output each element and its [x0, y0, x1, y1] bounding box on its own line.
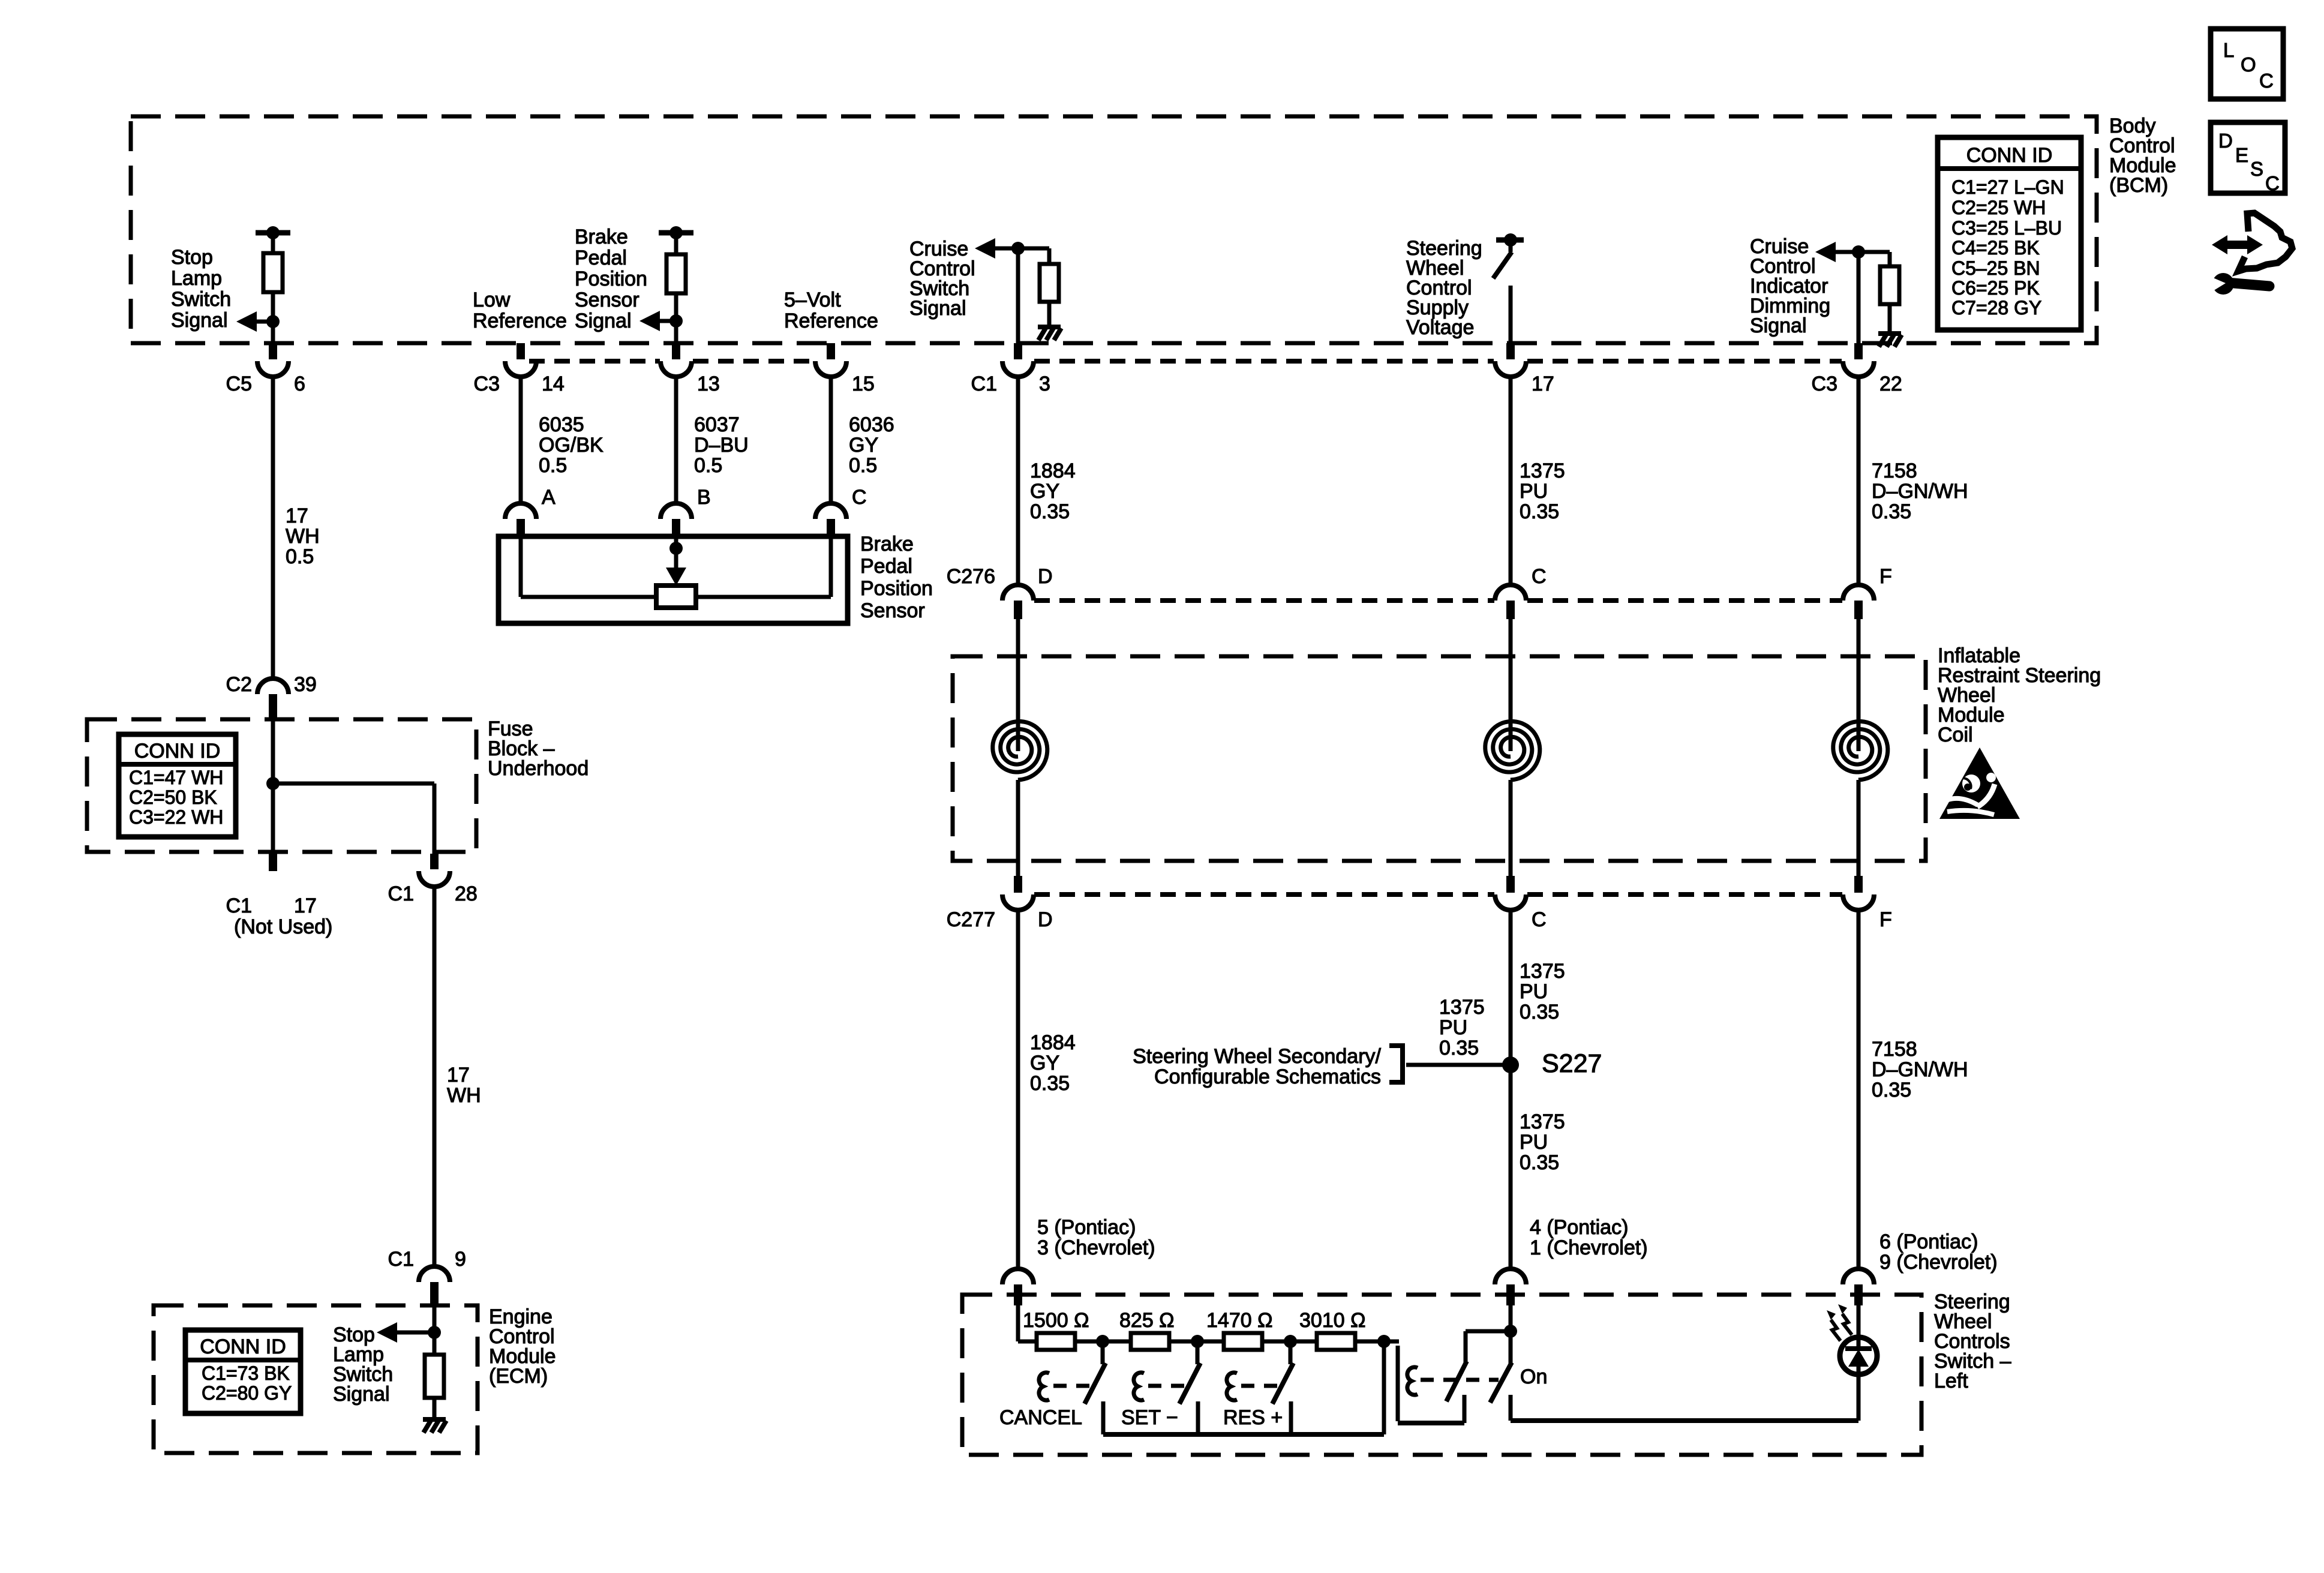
svg-text:D: D — [2218, 130, 2233, 152]
svg-text:9 (Chevrolet): 9 (Chevrolet) — [1879, 1251, 1998, 1274]
svg-text:3 (Chevrolet): 3 (Chevrolet) — [1037, 1236, 1155, 1259]
svg-text:0.35: 0.35 — [1520, 1151, 1559, 1174]
svg-text:7158: 7158 — [1872, 460, 1917, 482]
svg-text:B: B — [697, 486, 711, 509]
svg-text:17: 17 — [1532, 373, 1554, 395]
svg-text:CONN ID: CONN ID — [200, 1335, 286, 1358]
svg-text:C276: C276 — [947, 565, 995, 588]
svg-text:0.35: 0.35 — [1030, 500, 1070, 523]
svg-text:OG/BK: OG/BK — [539, 434, 603, 457]
svg-text:GY: GY — [849, 434, 878, 457]
svg-text:Left: Left — [1934, 1370, 1968, 1392]
svg-text:C3: C3 — [474, 373, 500, 395]
svg-text:Signal: Signal — [333, 1383, 390, 1406]
svg-text:0.5: 0.5 — [694, 454, 722, 477]
svg-text:0.35: 0.35 — [1030, 1072, 1070, 1095]
svg-text:0.5: 0.5 — [539, 454, 567, 477]
svg-text:CONN ID: CONN ID — [134, 740, 221, 763]
svg-text:O: O — [2241, 53, 2256, 76]
svg-text:C: C — [1532, 908, 1547, 931]
svg-text:Signal: Signal — [171, 309, 228, 332]
svg-text:Stop: Stop — [171, 246, 213, 269]
svg-text:C2=80 GY: C2=80 GY — [202, 1382, 292, 1404]
svg-text:C277: C277 — [947, 908, 995, 931]
svg-text:6036: 6036 — [849, 413, 894, 436]
svg-text:F: F — [1879, 908, 1892, 931]
svg-text:Pedal: Pedal — [860, 555, 912, 578]
svg-text:C5–25 BN: C5–25 BN — [1951, 257, 2040, 279]
svg-text:C1: C1 — [971, 373, 997, 395]
svg-text:C1: C1 — [388, 1248, 414, 1271]
svg-text:Lamp: Lamp — [171, 267, 222, 290]
svg-text:Switch: Switch — [171, 288, 231, 311]
svg-text:C7=28 GY: C7=28 GY — [1951, 297, 2041, 319]
svg-text:Position: Position — [575, 268, 647, 290]
svg-text:PU: PU — [1520, 480, 1548, 503]
svg-text:1375: 1375 — [1520, 960, 1565, 983]
svg-text:1375: 1375 — [1439, 996, 1485, 1019]
svg-text:Sensor: Sensor — [575, 289, 639, 311]
svg-text:C: C — [2265, 172, 2280, 194]
svg-text:A: A — [542, 486, 556, 509]
svg-text:3010 Ω: 3010 Ω — [1299, 1309, 1366, 1332]
svg-text:Configurable Schematics: Configurable Schematics — [1154, 1065, 1381, 1088]
svg-text:5 (Pontiac): 5 (Pontiac) — [1037, 1216, 1136, 1239]
svg-text:28: 28 — [455, 882, 478, 905]
svg-text:(ECM): (ECM) — [489, 1365, 548, 1388]
svg-text:1470 Ω: 1470 Ω — [1206, 1309, 1273, 1332]
svg-text:C4=25 BK: C4=25 BK — [1951, 237, 2040, 259]
svg-text:PU: PU — [1520, 980, 1548, 1003]
svg-text:0.35: 0.35 — [1520, 1001, 1559, 1023]
svg-text:6035: 6035 — [539, 413, 584, 436]
svg-text:On: On — [1520, 1365, 1547, 1388]
svg-text:Signal: Signal — [1750, 314, 1807, 337]
svg-text:13: 13 — [697, 373, 720, 395]
svg-text:1884: 1884 — [1030, 460, 1076, 482]
svg-text:Reference: Reference — [784, 310, 878, 332]
svg-text:15: 15 — [852, 373, 875, 395]
svg-text:F: F — [1879, 565, 1892, 588]
svg-text:Sensor: Sensor — [860, 599, 925, 622]
svg-text:Brake: Brake — [575, 226, 628, 248]
svg-text:Low: Low — [473, 289, 511, 311]
svg-text:7158: 7158 — [1872, 1038, 1917, 1061]
svg-text:1375: 1375 — [1520, 1110, 1565, 1133]
svg-text:WH: WH — [286, 525, 320, 548]
svg-text:17: 17 — [294, 894, 317, 917]
svg-text:14: 14 — [542, 373, 565, 395]
svg-text:6037: 6037 — [694, 413, 740, 436]
svg-text:1 (Chevrolet): 1 (Chevrolet) — [1530, 1236, 1648, 1259]
svg-text:Signal: Signal — [575, 310, 632, 332]
svg-text:GY: GY — [1030, 1052, 1059, 1074]
svg-text:(Not Used): (Not Used) — [234, 915, 332, 938]
svg-text:0.5: 0.5 — [286, 545, 314, 568]
svg-text:17: 17 — [286, 505, 308, 527]
svg-text:CANCEL: CANCEL — [999, 1406, 1082, 1429]
svg-text:C5: C5 — [226, 373, 252, 395]
svg-text:E: E — [2235, 144, 2248, 166]
svg-text:C3=22 WH: C3=22 WH — [129, 806, 223, 828]
svg-text:C2=50 BK: C2=50 BK — [129, 786, 217, 808]
svg-text:D–GN/WH: D–GN/WH — [1872, 1058, 1968, 1081]
svg-text:0.35: 0.35 — [1439, 1037, 1479, 1059]
svg-text:5–Volt: 5–Volt — [784, 289, 841, 311]
svg-text:0.35: 0.35 — [1872, 1079, 1911, 1101]
svg-text:C1: C1 — [388, 882, 414, 905]
svg-text:L: L — [2223, 39, 2234, 61]
svg-text:C3: C3 — [1812, 373, 1837, 395]
svg-text:6: 6 — [294, 373, 305, 395]
svg-text:C2=25 WH: C2=25 WH — [1951, 197, 2046, 218]
svg-text:9: 9 — [455, 1248, 466, 1271]
svg-text:PU: PU — [1439, 1016, 1467, 1039]
svg-text:S: S — [2250, 158, 2263, 180]
svg-text:C1=27 L–GN: C1=27 L–GN — [1951, 176, 2064, 198]
svg-text:0.35: 0.35 — [1520, 500, 1559, 523]
svg-text:Steering Wheel Secondary/: Steering Wheel Secondary/ — [1133, 1045, 1381, 1068]
svg-text:RES +: RES + — [1223, 1406, 1283, 1429]
svg-text:22: 22 — [1879, 373, 1902, 395]
svg-text:PU: PU — [1520, 1131, 1548, 1154]
svg-text:D–BU: D–BU — [694, 434, 749, 457]
svg-text:0.35: 0.35 — [1872, 500, 1911, 523]
svg-text:Pedal: Pedal — [575, 247, 627, 269]
svg-text:C3=25 L–BU: C3=25 L–BU — [1951, 217, 2062, 239]
svg-text:SET −: SET − — [1121, 1406, 1178, 1429]
svg-text:C: C — [852, 486, 867, 509]
svg-text:Position: Position — [860, 577, 933, 600]
svg-text:C1=73 BK: C1=73 BK — [202, 1362, 290, 1384]
svg-text:Underhood: Underhood — [488, 757, 588, 780]
svg-text:4 (Pontiac): 4 (Pontiac) — [1530, 1216, 1628, 1239]
svg-text:C1: C1 — [226, 894, 252, 917]
svg-text:CONN ID: CONN ID — [1966, 144, 2053, 167]
svg-text:825 Ω: 825 Ω — [1119, 1309, 1175, 1332]
svg-text:39: 39 — [294, 673, 317, 696]
svg-text:0.5: 0.5 — [849, 454, 877, 477]
svg-text:D: D — [1038, 908, 1053, 931]
svg-text:C2: C2 — [226, 673, 252, 696]
svg-text:C: C — [1532, 565, 1547, 588]
svg-text:1375: 1375 — [1520, 460, 1565, 482]
svg-text:Signal: Signal — [909, 297, 966, 320]
svg-text:6 (Pontiac): 6 (Pontiac) — [1879, 1230, 1978, 1253]
svg-text:WH: WH — [447, 1084, 481, 1107]
svg-text:Reference: Reference — [473, 310, 567, 332]
svg-text:(BCM): (BCM) — [2109, 174, 2168, 197]
svg-text:1500 Ω: 1500 Ω — [1023, 1309, 1089, 1332]
svg-text:GY: GY — [1030, 480, 1059, 503]
svg-text:Coil: Coil — [1938, 724, 1973, 746]
svg-text:1884: 1884 — [1030, 1031, 1076, 1054]
svg-text:S227: S227 — [1542, 1049, 1602, 1078]
svg-text:17: 17 — [447, 1064, 470, 1086]
svg-text:C6=25 PK: C6=25 PK — [1951, 277, 2040, 299]
svg-text:C1=47 WH: C1=47 WH — [129, 767, 223, 788]
svg-text:Brake: Brake — [860, 533, 914, 556]
svg-text:D–GN/WH: D–GN/WH — [1872, 480, 1968, 503]
svg-text:Voltage: Voltage — [1406, 316, 1474, 339]
svg-text:C: C — [2259, 70, 2274, 92]
svg-text:D: D — [1038, 565, 1053, 588]
svg-text:3: 3 — [1039, 373, 1050, 395]
